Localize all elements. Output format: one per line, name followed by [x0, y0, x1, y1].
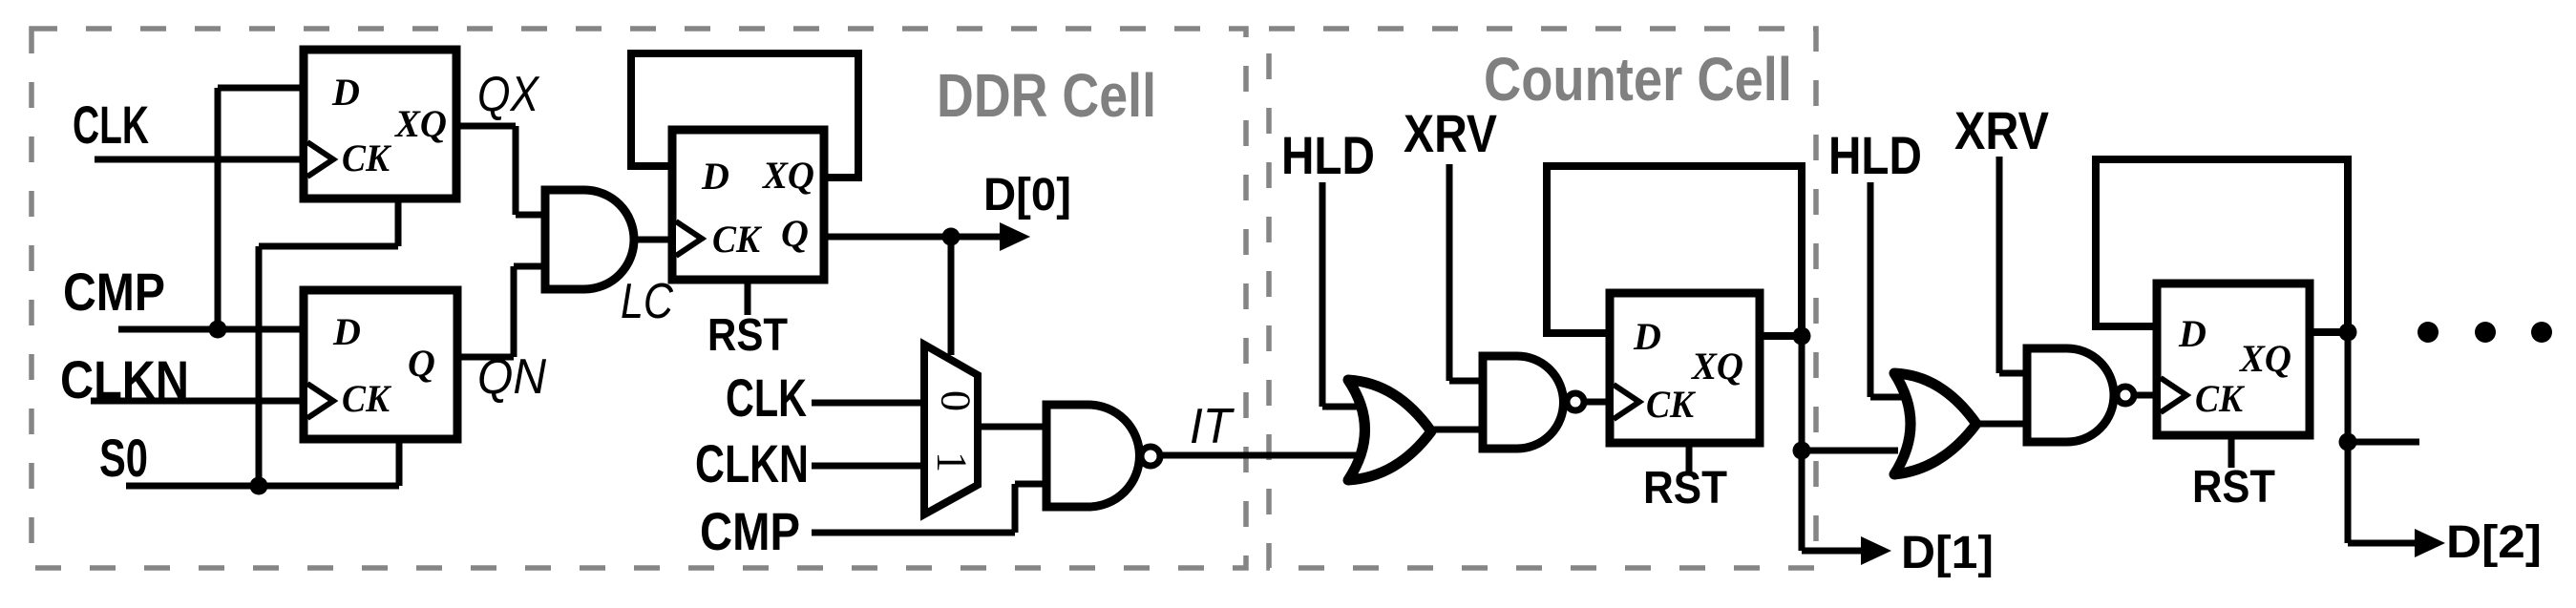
svg-text:D[2]: D[2] [2446, 517, 2542, 568]
svg-text:D: D [331, 71, 360, 114]
svg-text:LC: LC [621, 274, 673, 329]
svg-text:XRV: XRV [1404, 103, 1497, 163]
svg-text:CK: CK [712, 218, 762, 261]
svg-text:CLK: CLK [726, 367, 807, 428]
svg-text:IT: IT [1190, 399, 1235, 454]
svg-text:D: D [701, 155, 729, 198]
svg-text:1: 1 [929, 451, 976, 472]
svg-text:QX: QX [477, 67, 540, 122]
svg-text:0: 0 [933, 390, 980, 411]
svg-text:CK: CK [2195, 377, 2245, 420]
svg-text:HLD: HLD [1281, 125, 1375, 185]
svg-text:XRV: XRV [1954, 100, 2049, 160]
svg-text:Q: Q [781, 212, 809, 255]
svg-text:XQ: XQ [2238, 337, 2291, 380]
svg-text:XQ: XQ [1690, 345, 1743, 388]
svg-text:Counter Cell: Counter Cell [1484, 45, 1792, 114]
svg-text:D[1]: D[1] [1901, 528, 1994, 578]
svg-text:CK: CK [342, 136, 391, 179]
svg-text:D: D [1633, 315, 1661, 358]
svg-text:Q: Q [408, 342, 435, 385]
svg-text:CLKN: CLKN [60, 349, 189, 409]
svg-text:D: D [2178, 312, 2206, 355]
svg-text:RST: RST [707, 310, 788, 361]
svg-text:CK: CK [1646, 383, 1696, 426]
svg-text:RST: RST [2192, 462, 2275, 513]
svg-text:RST: RST [1643, 463, 1727, 514]
svg-text:HLD: HLD [1828, 125, 1922, 185]
svg-text:CK: CK [342, 377, 391, 420]
svg-text:D[0]: D[0] [983, 170, 1071, 220]
svg-text:D: D [332, 310, 361, 353]
svg-text:S0: S0 [99, 428, 148, 488]
svg-text:CMP: CMP [63, 262, 165, 322]
svg-text:CMP: CMP [700, 501, 800, 561]
svg-text:CLK: CLK [73, 94, 149, 155]
svg-text:QN: QN [477, 349, 546, 405]
svg-text:DDR Cell: DDR Cell [937, 61, 1156, 130]
svg-text:CLKN: CLKN [695, 433, 809, 493]
svg-text:XQ: XQ [393, 102, 447, 145]
svg-text:XQ: XQ [761, 154, 814, 197]
